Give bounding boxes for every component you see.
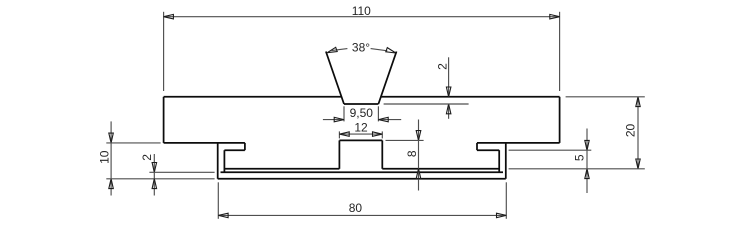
left inner wall	[223, 150, 225, 172]
channel left outer wall	[217, 143, 219, 179]
dimension 38 degrees (groove angle)	[327, 40, 396, 54]
boss right edge	[381, 140, 383, 168]
dimension 2 (groove depth)	[384, 57, 469, 119]
dimension 2 (sheet thickness, left)	[140, 154, 215, 196]
svg-text:5: 5	[572, 154, 586, 161]
plate right edge	[559, 97, 561, 143]
dimension 110 (overall width, top)	[164, 4, 560, 91]
dimension 9,50 (groove bottom width)	[323, 106, 401, 122]
plate top surface left segment	[164, 96, 342, 98]
plate left edge	[163, 97, 165, 143]
plate top surface right segment	[381, 96, 560, 98]
V-groove right slant	[378, 52, 396, 105]
svg-text:110: 110	[352, 4, 371, 18]
left flange underside	[224, 149, 245, 151]
svg-text:80: 80	[349, 201, 363, 215]
slot floor left of boss	[224, 168, 339, 170]
svg-text:8: 8	[405, 150, 419, 157]
svg-text:20: 20	[623, 124, 637, 138]
dimension 10 (left overall step height)	[97, 121, 214, 195]
svg-text:9,50: 9,50	[350, 106, 374, 120]
right flange underside	[477, 149, 499, 151]
boss left edge	[338, 140, 340, 168]
dimension 20 (right overall height)	[509, 97, 645, 169]
dimension 8 (boss height)	[386, 120, 424, 191]
channel outer bottom	[218, 178, 506, 180]
V-groove left slant	[326, 52, 344, 105]
plate bottom left / left flange top	[164, 142, 245, 144]
channel right outer wall	[505, 143, 507, 179]
slot floor right of boss	[382, 168, 499, 170]
plate bottom right / right flange top	[477, 142, 560, 144]
left flange end face	[244, 143, 246, 150]
right flange end face	[476, 143, 478, 150]
right inner wall	[498, 150, 500, 172]
V-groove bottom	[344, 103, 378, 105]
svg-text:10: 10	[97, 150, 111, 164]
dimension 5 (right slot depth)	[509, 129, 592, 194]
dimension 80 (channel width, bottom)	[218, 182, 506, 219]
dimension 12 (boss width)	[339, 120, 382, 138]
svg-text:2: 2	[435, 63, 449, 70]
svg-text:38°: 38°	[352, 40, 370, 54]
boss top	[339, 139, 382, 141]
channel inner bottom (sheet top)	[221, 171, 504, 173]
svg-text:2: 2	[140, 154, 154, 161]
svg-text:12: 12	[354, 120, 368, 134]
